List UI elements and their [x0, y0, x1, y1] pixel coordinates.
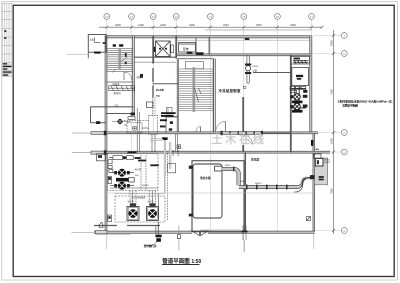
pipe exit bottom with valves — [157, 222, 159, 235]
row B wall — [106, 151, 330, 153]
svg-text:3357: 3357 — [256, 23, 262, 27]
svg-text:16: 16 — [276, 15, 280, 19]
svg-text:2100: 2100 — [138, 23, 144, 27]
tank — [193, 164, 222, 218]
pipes crossing corridor right — [174, 134, 176, 152]
svg-text:1800: 1800 — [330, 40, 334, 46]
left small room bottom y82 — [106, 81, 134, 83]
protruding room top-left — [88, 35, 106, 53]
corridor mid line — [176, 39, 311, 41]
double door bottom — [192, 231, 208, 236]
svg-text:DN125: DN125 — [172, 150, 174, 157]
pump assembly right (y 86-112) — [291, 86, 306, 112]
svg-text:次管设平衡阀.: 次管设平衡阀. — [342, 102, 358, 107]
machine room dashed zones — [108, 154, 159, 191]
vestibule wall bottom-left — [94, 225, 117, 227]
pipes crossing corridor — [137, 108, 139, 152]
strainer black bar — [116, 178, 129, 182]
HX cluster — [124, 116, 158, 152]
svg-text:15: 15 — [242, 15, 246, 19]
right room R1 with hatch band — [291, 57, 310, 65]
equip room right wall — [195, 38, 197, 55]
wall y106.8 left rooms — [91, 106, 134, 108]
svg-text:12: 12 — [152, 15, 156, 19]
stair bottom wall y71.5 — [106, 71, 134, 73]
small square symbol in corridor — [177, 145, 181, 149]
svg-text:配电: 配电 — [183, 47, 189, 51]
svg-text:DN125: DN125 — [324, 160, 330, 162]
top dimension line — [99, 26, 324, 29]
door arc wall x243 — [243, 135, 252, 144]
svg-text:3400: 3400 — [189, 23, 195, 27]
riser shaft gray — [315, 158, 328, 185]
boxes outside wall below row B — [97, 154, 106, 161]
closet outside left wall — [90, 107, 92, 123]
top axis bubbles — [104, 14, 315, 20]
svg-text:1900: 1900 — [330, 138, 334, 144]
stair2 walls — [177, 59, 179, 132]
bottom wall — [94, 231, 315, 233]
svg-text:B: B — [343, 150, 345, 154]
horizontal grid axis leaders (right) — [313, 36, 341, 231]
svg-text:室外阀门井: 室外阀门井 — [144, 244, 157, 248]
wall fixture left bottom — [108, 215, 112, 222]
vertical grid axis lines — [107, 20, 312, 252]
svg-text:冷冻房: 冷冻房 — [251, 156, 260, 161]
pipe through bottom wall x244 — [242, 226, 248, 253]
machine room piping — [110, 154, 168, 222]
small equip rects above pumps — [109, 156, 133, 160]
small valve right below wall — [177, 235, 180, 239]
pipe stubs exiting left wall — [72, 131, 107, 155]
title strip table — [2, 3, 13, 76]
pipes from tank — [222, 167, 240, 186]
canopy line top — [205, 29, 312, 31]
svg-text:13: 13 — [175, 15, 179, 19]
rect above HX cluster — [147, 102, 154, 108]
svg-text:DN70: DN70 — [225, 165, 231, 167]
black riser bar upper right — [311, 140, 313, 146]
left wall — [105, 36, 107, 234]
S elbows up to shaft — [297, 178, 314, 187]
svg-text:3400: 3400 — [290, 23, 296, 27]
wall segment y113.5 — [106, 113, 131, 115]
svg-text:2600: 2600 — [115, 23, 121, 27]
door arc room below stairs — [124, 72, 132, 80]
svg-text:H: H — [343, 52, 345, 56]
window hatch room left — [109, 86, 135, 91]
door bottom-left of machine room — [99, 222, 103, 228]
svg-text:3343: 3343 — [223, 23, 229, 27]
main bottom pipe — [239, 185, 299, 190]
row C wall — [106, 132, 318, 134]
leader line left of bottom wall — [72, 231, 95, 233]
svg-text:土木在线: 土木在线 — [212, 132, 267, 146]
door arc into stair2 landing — [196, 127, 201, 132]
svg-text:2400: 2400 — [160, 23, 166, 27]
tank top pipe flange — [215, 166, 222, 171]
svg-text:DN150: DN150 — [142, 185, 149, 187]
threshold line below bottom wall — [96, 234, 130, 236]
equip room top — [179, 43, 196, 53]
elevator shaft walls — [152, 36, 154, 64]
svg-text:DN125: DN125 — [177, 150, 179, 157]
svg-text:7850: 7850 — [330, 188, 334, 194]
right wall lower — [313, 132, 315, 232]
section symbol bottom right room — [307, 217, 311, 221]
svg-text:17: 17 — [310, 15, 314, 19]
note text right — [338, 98, 393, 107]
right room R2 — [292, 68, 309, 86]
title strip marks — [3, 30, 12, 76]
stair rail — [118, 49, 121, 70]
svg-text:A: A — [343, 229, 345, 233]
top dimension numbers — [115, 23, 296, 27]
pipes along bottom right wall going left — [200, 229, 241, 231]
right axis bubbles — [341, 33, 347, 234]
svg-text:冷冻站控制室: 冷冻站控制室 — [219, 88, 241, 93]
right dimension line — [332, 30, 335, 234]
stair2 landing — [185, 62, 203, 69]
left wall fixtures — [108, 160, 113, 184]
small pumps — [110, 169, 134, 190]
right lower area small rect — [314, 154, 321, 159]
svg-text:BA: BA — [316, 148, 320, 151]
small fixtures left of stair2 — [167, 108, 173, 115]
corridor pipe (row C) — [221, 131, 291, 135]
svg-text:DN70: DN70 — [253, 66, 259, 68]
stair 2 (large, center) — [179, 69, 214, 111]
faint line y193 — [106, 192, 314, 194]
stair right wall — [133, 36, 135, 114]
svg-text:10: 10 — [105, 15, 109, 19]
vertical pipe x248 with device — [247, 55, 249, 83]
top wall — [105, 36, 312, 38]
wall x210 upper — [208, 37, 210, 55]
grid line below wall — [106, 234, 108, 249]
stairwell 1 treads — [107, 49, 133, 70]
door arc control room — [216, 121, 226, 131]
svg-text:14: 14 — [209, 15, 213, 19]
large pumps — [127, 203, 159, 220]
right rooms left wall — [290, 55, 292, 152]
pipe bundle to tank room — [162, 137, 168, 140]
svg-text:DN125: DN125 — [255, 183, 262, 185]
tank room — [192, 161, 244, 232]
svg-text:DN125: DN125 — [324, 162, 330, 164]
svg-text:管道平面图 1:50: 管道平面图 1:50 — [162, 257, 201, 265]
wall y72 right section — [253, 72, 291, 74]
svg-text:11: 11 — [130, 15, 133, 19]
elevator — [156, 41, 174, 57]
corridor top wall (row H) — [176, 54, 311, 56]
wall x243 mid with door gap — [242, 97, 244, 135]
stair2 rail — [193, 67, 196, 112]
svg-text:软化水箱: 软化水箱 — [200, 176, 211, 180]
svg-text:7900: 7900 — [330, 89, 334, 95]
right wall upper — [310, 36, 312, 133]
